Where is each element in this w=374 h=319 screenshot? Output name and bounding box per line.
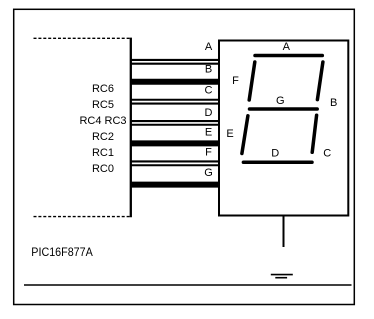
svg-text:G: G bbox=[276, 95, 285, 107]
svg-text:RC5: RC5 bbox=[92, 99, 114, 111]
svg-text:RC0: RC0 bbox=[92, 163, 114, 175]
svg-text:D: D bbox=[205, 107, 213, 119]
svg-text:C: C bbox=[205, 85, 213, 97]
svg-text:B: B bbox=[205, 64, 212, 76]
svg-text:E: E bbox=[205, 127, 212, 139]
svg-text:G: G bbox=[204, 167, 213, 179]
svg-text:RC6: RC6 bbox=[92, 83, 114, 95]
svg-text:F: F bbox=[232, 75, 239, 87]
svg-text:RC1: RC1 bbox=[92, 147, 114, 159]
svg-text:D: D bbox=[271, 147, 279, 159]
svg-text:PIC16F877A: PIC16F877A bbox=[31, 247, 93, 259]
svg-text:A: A bbox=[205, 41, 213, 53]
svg-text:B: B bbox=[330, 97, 337, 109]
svg-text:A: A bbox=[283, 41, 291, 53]
svg-text:RC2: RC2 bbox=[92, 131, 114, 143]
svg-text:C: C bbox=[323, 147, 331, 159]
svg-text:F: F bbox=[205, 147, 212, 159]
svg-text:RC4 RC3: RC4 RC3 bbox=[79, 115, 126, 127]
svg-text:E: E bbox=[226, 128, 233, 140]
